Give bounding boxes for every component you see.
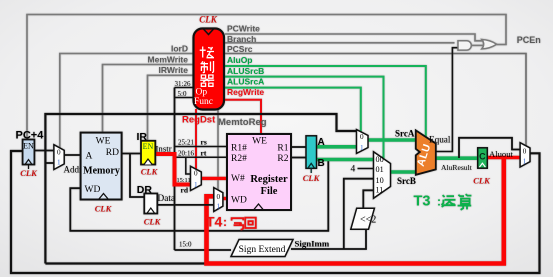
svg-text:WE: WE <box>96 137 111 147</box>
svg-text:0: 0 <box>523 148 527 156</box>
svg-text:Equal: Equal <box>429 134 451 144</box>
controller clock notch <box>203 29 214 35</box>
svg-text:A: A <box>86 152 93 162</box>
wire PC next return loop <box>11 151 540 273</box>
svg-text:Sign Extend: Sign Extend <box>239 245 286 255</box>
svg-text:Aluout: Aluout <box>489 149 513 159</box>
svg-text:T4: T4 <box>206 214 223 230</box>
svg-text:4: 4 <box>351 165 356 175</box>
svg-text:Data: Data <box>158 194 176 204</box>
svg-text:rt: rt <box>201 148 207 157</box>
svg-text:SrcB: SrcB <box>397 176 416 186</box>
PC register <box>23 140 35 165</box>
wire 5:0 tap <box>175 97 194 99</box>
Sign Extend box <box>231 240 293 257</box>
svg-text:1: 1 <box>360 144 364 152</box>
wire jog to IorD mux 1 <box>45 162 54 164</box>
Register File <box>227 134 291 210</box>
A B register <box>306 136 317 169</box>
ALU <box>416 130 436 174</box>
svg-text:EN: EN <box>23 142 34 151</box>
svg-text:5:0: 5:0 <box>178 90 187 98</box>
svg-text:T3: T3 <box>414 194 431 210</box>
shift left 2 box <box>351 208 375 229</box>
MemtoReg mux <box>214 188 223 212</box>
wire AluResult green <box>435 156 478 160</box>
svg-text:1: 1 <box>523 158 527 166</box>
wire ALUResult branch to PC mux 0 <box>459 138 520 158</box>
svg-text:R2#: R2# <box>231 154 247 164</box>
wire PCEn loop to PC <box>27 15 506 140</box>
svg-text:W#: W# <box>231 174 245 184</box>
wire IRWrite <box>148 75 194 141</box>
svg-text:CLK: CLK <box>144 217 162 227</box>
svg-text:CLK: CLK <box>199 15 218 25</box>
svg-text:A: A <box>318 137 325 148</box>
wire RegDst red select <box>195 109 197 169</box>
controller text 器 <box>200 75 214 86</box>
svg-text:AluResult: AluResult <box>441 163 473 172</box>
SrcA mux <box>357 130 369 154</box>
svg-text:C: C <box>479 152 486 162</box>
wire rt 20:16 to R2# <box>175 156 228 158</box>
wire RD branch to DR <box>130 154 145 198</box>
svg-text:MemWrite: MemWrite <box>148 55 189 65</box>
svg-text:0: 0 <box>194 170 198 178</box>
svg-text:1: 1 <box>57 159 61 167</box>
wire 15:0 to sign extend <box>175 249 232 251</box>
svg-text:IRWrite: IRWrite <box>159 65 189 75</box>
T3 text <box>414 194 472 210</box>
svg-text:31:26: 31:26 <box>175 80 191 88</box>
svg-text:Memory: Memory <box>83 166 120 177</box>
svg-text:<<2: <<2 <box>360 215 376 226</box>
wire SignImm branch to mux 10 <box>344 179 374 249</box>
svg-text:1: 1 <box>217 203 221 211</box>
wire Aluout red down and bottom and up to MemtoReg mux 0 <box>207 158 504 264</box>
wire RegWrite red <box>225 100 261 134</box>
wire PC out to IorD mux 0 <box>34 150 54 152</box>
svg-text:CLK: CLK <box>20 168 38 178</box>
wire Instr red from IR <box>155 154 191 185</box>
wire PCWrite <box>225 34 483 41</box>
svg-text:R1#: R1# <box>231 144 247 154</box>
controller U1 <box>194 29 225 110</box>
wire MemtoReg mux out red to WD <box>223 197 227 200</box>
wire 4 to SrcB mux <box>358 168 374 170</box>
wire SignImm <box>291 229 366 249</box>
wire Equal to AND gate <box>436 48 459 152</box>
svg-text:AluOp: AluOp <box>227 55 253 65</box>
svg-text:R1: R1 <box>277 144 288 154</box>
svg-text:00: 00 <box>376 155 384 164</box>
wire RegFile R1 to A <box>291 146 306 148</box>
wire Memory RD to IR <box>122 153 141 155</box>
svg-text:rs: rs <box>201 138 207 147</box>
svg-text:SrcA: SrcA <box>395 129 415 139</box>
svg-text:IorD: IorD <box>171 44 188 54</box>
OR gate <box>482 40 497 49</box>
SrcB mux <box>374 152 391 199</box>
svg-text:Func: Func <box>194 97 213 107</box>
wire RegDst mux out red to W# <box>201 177 227 180</box>
RegDst mux <box>191 166 202 190</box>
svg-text:20:16: 20:16 <box>178 149 194 157</box>
wire MemtoReg select <box>217 109 219 190</box>
wire Aluout red to PC mux 1 <box>486 156 520 160</box>
wire A out green <box>317 147 357 149</box>
svg-text:0: 0 <box>217 193 221 201</box>
wire DR Data to MemtoReg mux 1 <box>158 204 214 206</box>
IorD mux <box>54 145 64 170</box>
svg-text:RD: RD <box>106 148 119 158</box>
svg-text:15:0: 15:0 <box>179 241 192 249</box>
回 <box>245 218 256 228</box>
T4 text <box>206 214 256 230</box>
wire SrcB green <box>390 170 416 174</box>
写 <box>232 218 244 229</box>
wire MemWrite <box>103 65 194 133</box>
wire rs 25:21 to R1# <box>175 146 228 148</box>
svg-text:rd: rd <box>181 186 189 195</box>
wire IorD mux to Memory A <box>64 154 80 156</box>
svg-text:Register: Register <box>250 174 288 185</box>
svg-text:1: 1 <box>194 181 198 189</box>
controller text 制 <box>201 61 214 73</box>
svg-text:PCEn: PCEn <box>517 35 541 45</box>
svg-text::: : <box>223 215 227 229</box>
svg-text:CLK: CLK <box>473 176 491 186</box>
svg-text:CLK: CLK <box>141 167 159 177</box>
wire rt branch to RegDst mux 0 <box>186 157 191 174</box>
svg-text:0: 0 <box>57 149 61 157</box>
svg-text:WE: WE <box>252 137 267 147</box>
wire AND to OR <box>470 44 483 46</box>
wire AluOut black bottom to x204 <box>45 262 205 264</box>
wire 31:26 tap <box>175 87 194 89</box>
算 <box>458 194 472 210</box>
wire shift out to mux 11 <box>363 190 373 208</box>
wire SrcA green <box>368 138 416 142</box>
svg-text:10: 10 <box>376 176 384 185</box>
wire AluOp green <box>225 66 426 138</box>
svg-text:R2: R2 <box>277 154 288 164</box>
Memory <box>81 133 122 200</box>
controller text 控 <box>200 47 214 58</box>
svg-text:11: 11 <box>376 186 384 195</box>
wire ALUSrcB green <box>225 77 384 159</box>
svg-text:SignImm: SignImm <box>295 238 330 248</box>
svg-text:Branch: Branch <box>227 34 256 44</box>
svg-text:01: 01 <box>376 165 384 174</box>
svg-text::: : <box>437 195 441 209</box>
svg-text:WD: WD <box>231 196 247 206</box>
svg-text:File: File <box>261 186 278 197</box>
wire Instr vertical bus <box>174 88 176 251</box>
C register (Aluout) <box>478 148 488 168</box>
svg-text:Instr: Instr <box>156 144 172 154</box>
wire ALUSrcA green <box>225 88 361 132</box>
svg-text:ALUSrcB: ALUSrcB <box>227 66 264 76</box>
wire PC long line to SrcA mux 0 <box>45 114 356 264</box>
svg-text:EN: EN <box>143 142 154 151</box>
svg-text:RegDst: RegDst <box>182 114 216 125</box>
svg-text:RegWrite: RegWrite <box>227 87 264 97</box>
wire PCSrc <box>225 54 526 147</box>
svg-text:25:21: 25:21 <box>178 139 194 147</box>
svg-text:PCWrite: PCWrite <box>227 24 260 34</box>
wire Branch <box>225 42 455 44</box>
svg-text:MemtoReg: MemtoReg <box>218 117 267 128</box>
wire RegFile R2 to B <box>291 157 306 159</box>
svg-text:Addr: Addr <box>64 165 83 175</box>
svg-text:PCSrc: PCSrc <box>227 44 253 54</box>
svg-text:PC+4: PC+4 <box>16 130 45 142</box>
运 <box>442 195 456 207</box>
PC src mux right <box>520 143 530 167</box>
wire B out green <box>317 158 375 160</box>
svg-text:ALUSrcA: ALUSrcA <box>227 76 264 86</box>
svg-text:CLK: CLK <box>303 173 321 183</box>
svg-text:B: B <box>318 158 325 169</box>
wire IorD <box>60 54 193 148</box>
svg-text:0: 0 <box>360 133 364 141</box>
svg-text:WD: WD <box>85 185 101 195</box>
wire B to Memory WD loop <box>70 160 328 231</box>
svg-text:15:11: 15:11 <box>177 177 191 184</box>
AND gate <box>458 41 471 50</box>
svg-text:CLK: CLK <box>95 204 113 214</box>
